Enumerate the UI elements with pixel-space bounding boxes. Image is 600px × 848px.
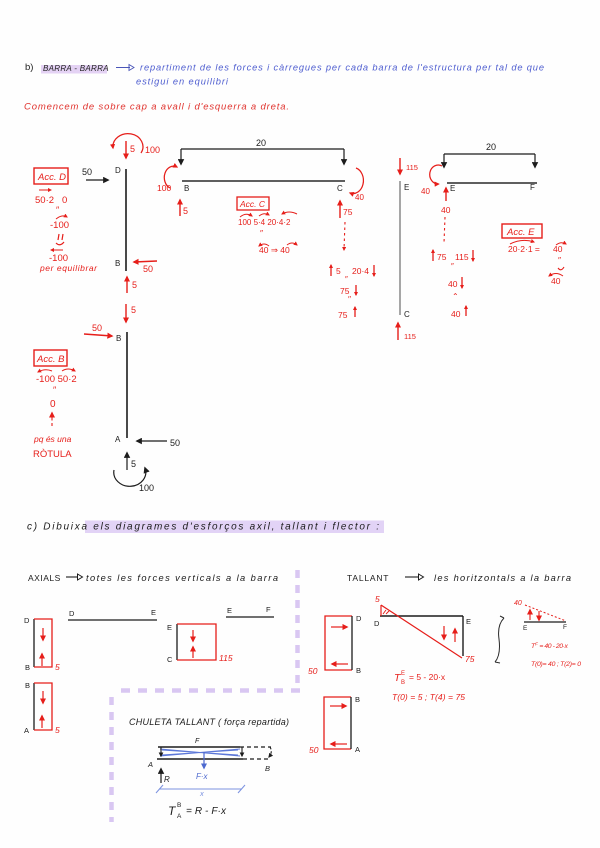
bar B-A bbox=[126, 332, 128, 438]
svg-text:TALLANT: TALLANT bbox=[347, 573, 389, 583]
dim arrow left E bbox=[443, 154, 445, 167]
shear diagram base D-E bbox=[380, 615, 463, 617]
svg-text:AXIALS: AXIALS bbox=[28, 573, 61, 583]
force arrow 5 up below B of BC bbox=[179, 200, 181, 216]
dim line 20 over bar B-C bbox=[181, 148, 344, 150]
highlight BARRA-BARRA bbox=[41, 65, 107, 74]
svg-text:″: ″ bbox=[260, 228, 263, 238]
arc over 5.4 AccC bbox=[259, 214, 269, 216]
svg-text:5: 5 bbox=[183, 206, 188, 216]
axial EC up arrow bbox=[192, 647, 194, 658]
svg-text:5: 5 bbox=[131, 305, 136, 315]
svg-text:50: 50 bbox=[308, 666, 318, 676]
svg-text:⌃: ⌃ bbox=[452, 292, 459, 301]
svg-text:D: D bbox=[374, 619, 380, 628]
svg-text:75: 75 bbox=[338, 310, 348, 320]
svg-text:115: 115 bbox=[455, 252, 469, 262]
svg-text:″: ″ bbox=[558, 255, 561, 265]
force arrow 115 down at E bbox=[399, 158, 401, 174]
dim tick left bbox=[156, 785, 163, 793]
svg-text:estigui en equilibri: estigui en equilibri bbox=[136, 77, 229, 87]
shear up arrow mid bbox=[454, 629, 456, 642]
svg-text:50·2: 50·2 bbox=[35, 195, 54, 206]
svg-text:Acc. D: Acc. D bbox=[37, 172, 66, 183]
mini dotted diagonal bbox=[525, 605, 566, 621]
svg-text:B: B bbox=[355, 695, 360, 704]
dashed transfer line below C bbox=[344, 222, 345, 250]
arc over 50.2 AccB bbox=[62, 369, 75, 371]
force arrow 115 up at C bottom bbox=[397, 323, 399, 340]
svg-text:40: 40 bbox=[451, 309, 461, 319]
svg-text:C: C bbox=[337, 184, 343, 193]
svg-text:″: ″ bbox=[451, 262, 454, 271]
open head axials arrow bbox=[78, 574, 83, 580]
arc over 40 right bbox=[287, 243, 297, 245]
shear hatch near D bbox=[383, 610, 389, 614]
svg-text:5: 5 bbox=[55, 725, 60, 735]
brace tick bottom bbox=[495, 662, 500, 663]
svg-text:C: C bbox=[404, 310, 410, 319]
arc over result 40 bbox=[556, 243, 566, 245]
axial zero line E-F bbox=[226, 616, 274, 618]
svg-text:E: E bbox=[404, 183, 409, 192]
svg-text:C: C bbox=[167, 655, 173, 664]
axial box E-C black edge bbox=[176, 624, 178, 660]
arc over -100 AccB bbox=[38, 370, 52, 372]
svg-text:= 5 - 20·x: = 5 - 20·x bbox=[409, 672, 446, 682]
brace tick top bbox=[500, 616, 504, 618]
svg-text:A: A bbox=[147, 760, 153, 769]
svg-text:F·x: F·x bbox=[196, 772, 209, 781]
axial EC down arrow bbox=[192, 630, 194, 641]
svg-text:F: F bbox=[530, 183, 535, 192]
svg-text:Comencem de sobre cap a avall: Comencem de sobre cap a avall i d'esquer… bbox=[24, 102, 289, 113]
purple divider left vertical bbox=[109, 697, 114, 822]
svg-text:B: B bbox=[184, 184, 189, 193]
axial box E-C red outline bbox=[177, 624, 216, 660]
balance up75 115down at E bbox=[432, 250, 434, 261]
svg-text:40 ⇒ 40: 40 ⇒ 40 bbox=[259, 245, 290, 255]
load end arrow left bbox=[160, 747, 162, 756]
axial box B-A black edge bbox=[33, 683, 35, 730]
svg-text:20: 20 bbox=[486, 142, 496, 152]
svg-text:40: 40 bbox=[441, 205, 451, 215]
balance line up5 20.4 down at C bbox=[330, 265, 332, 276]
arc over 20.4.2 AccC bbox=[282, 212, 297, 214]
brace divider bbox=[495, 618, 504, 662]
resultant blue arrow F.x bbox=[203, 752, 205, 768]
dim tick right bbox=[238, 785, 245, 793]
svg-text:B: B bbox=[265, 764, 270, 773]
shear box B-A red outline bbox=[324, 697, 351, 749]
svg-text:5: 5 bbox=[132, 280, 137, 290]
svg-text:D: D bbox=[115, 166, 121, 175]
svg-text:E: E bbox=[167, 623, 172, 632]
svg-text:E: E bbox=[450, 184, 455, 193]
svg-text:5: 5 bbox=[336, 266, 341, 276]
arc over 40 left bbox=[259, 244, 269, 246]
box Acc. C bbox=[237, 197, 269, 210]
svg-text:les horitzontals a la barra: les horitzontals a la barra bbox=[434, 573, 571, 583]
axial box D-B black edge bbox=[33, 619, 35, 667]
svg-text:A: A bbox=[24, 726, 29, 735]
dashed end arrow far right bbox=[269, 747, 271, 757]
svg-text:B: B bbox=[25, 663, 30, 672]
svg-text:repartiment de les forces i cà: repartiment de les forces i càrregues pe… bbox=[140, 63, 544, 73]
svg-text:B: B bbox=[115, 259, 120, 268]
svg-text:A: A bbox=[177, 813, 182, 820]
svg-text:B: B bbox=[356, 666, 361, 675]
svg-text:5: 5 bbox=[375, 594, 380, 604]
svg-text:Acc. E: Acc. E bbox=[506, 227, 535, 238]
svg-text:115: 115 bbox=[404, 332, 416, 341]
arrow after title bbox=[116, 67, 130, 69]
purple divider horizontal bbox=[113, 688, 300, 693]
force arrow 50 into B (red, from right) bbox=[134, 261, 157, 262]
svg-text:5: 5 bbox=[131, 459, 136, 469]
dim line x blue bbox=[159, 788, 242, 790]
axial DB down arrow bbox=[42, 628, 44, 640]
svg-text:75: 75 bbox=[343, 207, 353, 217]
svg-text:50: 50 bbox=[143, 264, 153, 274]
axial BA down arrow bbox=[42, 691, 44, 703]
bar D-B bbox=[125, 169, 127, 271]
svg-text:-100: -100 bbox=[50, 220, 69, 231]
arc over -100 bbox=[56, 216, 67, 219]
svg-text:x: x bbox=[199, 789, 204, 798]
bar B-C bbox=[182, 180, 345, 182]
svg-text:0: 0 bbox=[50, 399, 56, 410]
force arrow 5 up below B bbox=[126, 277, 128, 293]
svg-text:Acc. B: Acc. B bbox=[36, 354, 65, 365]
dim arrow right F bbox=[534, 154, 536, 167]
svg-text:E: E bbox=[523, 625, 528, 632]
mini down arrow bbox=[538, 611, 540, 620]
force arrow 50 into D (black) bbox=[86, 179, 108, 181]
arc over 100 AccC bbox=[240, 214, 252, 217]
svg-text:D: D bbox=[24, 616, 30, 625]
svg-text:20·4: 20·4 bbox=[352, 266, 369, 276]
shear box D-B black edge bbox=[351, 616, 353, 670]
dashed arrow up to zero bbox=[51, 413, 53, 426]
axial box D-B red outline bbox=[34, 619, 52, 667]
open head tallant arrow bbox=[419, 574, 424, 580]
svg-text:BARRA - BARRA: BARRA - BARRA bbox=[43, 64, 109, 73]
svg-text:0: 0 bbox=[62, 195, 67, 206]
force arrow 75 up below C bbox=[339, 201, 341, 218]
svg-text:75: 75 bbox=[465, 654, 475, 664]
svg-text:100 5·4 20·4·2: 100 5·4 20·4·2 bbox=[238, 218, 291, 227]
svg-text:E: E bbox=[401, 671, 405, 677]
mini up arrow bbox=[529, 610, 531, 620]
svg-text:D: D bbox=[69, 609, 75, 618]
force arrow 50 into A (black) bbox=[137, 440, 167, 442]
svg-text:115: 115 bbox=[406, 163, 418, 172]
box Acc. B bbox=[34, 350, 67, 366]
axial DB up arrow bbox=[41, 654, 43, 666]
dim arrow left B bbox=[180, 149, 182, 164]
svg-text:totes les forces verticals a l: totes les forces verticals a la barra bbox=[86, 573, 278, 583]
axial BA up arrow bbox=[41, 716, 43, 728]
force arrow 5 up below A bbox=[126, 453, 128, 470]
shear BA left arrow bbox=[331, 743, 347, 745]
bar E-C vertical gray bbox=[399, 181, 401, 315]
svg-text:A: A bbox=[355, 745, 360, 754]
bar E-F bbox=[447, 182, 537, 184]
dim arrow right C bbox=[343, 149, 345, 164]
svg-text:′′: ′′ bbox=[348, 295, 352, 304]
mini diagram base E-F bbox=[524, 621, 566, 623]
svg-text:40: 40 bbox=[355, 193, 364, 202]
shear DB right arrow bbox=[331, 626, 347, 628]
shear box B-A black edge bbox=[350, 697, 352, 749]
moment arc 40 at E of EF bbox=[430, 165, 442, 184]
shear small left edge red bbox=[380, 605, 382, 616]
svg-text:100: 100 bbox=[139, 483, 154, 493]
svg-text:E: E bbox=[151, 608, 156, 617]
svg-text:B: B bbox=[177, 802, 181, 809]
svg-text:RÒTULA: RÒTULA bbox=[33, 449, 72, 460]
arrow after TALLANT bbox=[405, 576, 419, 578]
load hatch blue bbox=[160, 749, 240, 756]
double down arrow bbox=[56, 234, 64, 245]
svg-text:F: F bbox=[266, 605, 271, 614]
svg-text:20: 20 bbox=[256, 138, 266, 148]
force arrow 5 down above lower B bbox=[125, 304, 127, 322]
shear diagonal line bbox=[381, 605, 462, 658]
small arrow over 50.2 bbox=[39, 189, 51, 191]
shear box D-B red outline bbox=[325, 616, 352, 670]
arrow after AXIALS bbox=[66, 576, 78, 578]
purple divider right vertical bbox=[295, 570, 300, 684]
svg-text:40: 40 bbox=[553, 244, 563, 254]
moment arc 100 at B of BC bbox=[164, 166, 177, 188]
svg-text:B: B bbox=[25, 681, 30, 690]
dim line 20 over bar E-F bbox=[444, 153, 535, 155]
axial zero line D-E bbox=[68, 619, 157, 621]
svg-text:B: B bbox=[116, 334, 121, 343]
svg-text:5: 5 bbox=[55, 662, 60, 672]
axial box B-A red outline bbox=[34, 683, 52, 730]
force arrow 50 into lower B bbox=[84, 334, 112, 336]
svg-text:= R - F·x: = R - F·x bbox=[186, 806, 227, 817]
svg-text:b): b) bbox=[25, 62, 33, 73]
svg-text:E: E bbox=[466, 617, 471, 626]
moment arc 40 at C of BC bbox=[350, 168, 363, 194]
shear DB left arrow bbox=[332, 663, 348, 665]
beam bottom dashed extension bbox=[243, 758, 268, 760]
svg-text:40: 40 bbox=[514, 600, 522, 607]
box Acc. D bbox=[34, 168, 68, 184]
force arrow 40 up below E bbox=[445, 188, 447, 201]
svg-text:75: 75 bbox=[437, 252, 447, 262]
svg-text:T(0) = 5 ; T(4) = 75: T(0) = 5 ; T(4) = 75 bbox=[392, 692, 465, 702]
arc over final 40 bbox=[549, 274, 563, 277]
svg-text:115: 115 bbox=[219, 653, 233, 663]
left arrow over -100 bbox=[51, 249, 63, 251]
svg-text:T(0)= 40 ; T(2)= 0: T(0)= 40 ; T(2)= 0 bbox=[531, 661, 581, 668]
svg-text:50: 50 bbox=[170, 438, 180, 448]
svg-text:CHULETA TALLANT ( força repar: CHULETA TALLANT ( força repartida) bbox=[129, 717, 289, 727]
svg-text:pq és una: pq és una bbox=[33, 434, 72, 444]
svg-text:B: B bbox=[401, 680, 405, 686]
svg-text:50: 50 bbox=[82, 167, 92, 177]
svg-text:20·2·1 =: 20·2·1 = bbox=[508, 244, 540, 254]
dashed transfer line below E bbox=[444, 217, 445, 243]
svg-text:5: 5 bbox=[130, 144, 135, 154]
svg-text:per equilibrar: per equilibrar bbox=[39, 263, 98, 273]
arc over 20.2.1 bbox=[510, 240, 534, 244]
beam top dashed extension bbox=[240, 746, 271, 748]
svg-text:100: 100 bbox=[145, 145, 160, 155]
box Acc. E bbox=[502, 224, 542, 238]
svg-text:F: F bbox=[563, 624, 567, 631]
svg-text:40: 40 bbox=[448, 279, 458, 289]
arrow open head bbox=[129, 65, 134, 71]
moment arc 100 at A bbox=[114, 468, 146, 486]
svg-text:″: ″ bbox=[345, 275, 348, 284]
svg-text:40: 40 bbox=[551, 276, 561, 286]
svg-text:R: R bbox=[164, 775, 170, 784]
svg-text:E: E bbox=[227, 606, 232, 615]
force arrow 5 down at D bbox=[125, 141, 127, 158]
beam top line bbox=[158, 746, 240, 748]
load end arrow right bbox=[241, 747, 243, 756]
shear down arrow mid bbox=[443, 626, 445, 639]
svg-text:50: 50 bbox=[92, 323, 102, 333]
svg-text:-100 50·2: -100 50·2 bbox=[36, 374, 77, 385]
svg-text:A: A bbox=[115, 435, 121, 444]
svg-text:100: 100 bbox=[157, 183, 171, 193]
highlight c line bbox=[85, 521, 384, 534]
beam bottom line bbox=[157, 758, 243, 760]
svg-text:D: D bbox=[356, 614, 362, 623]
svg-text:F: F bbox=[195, 738, 200, 745]
moment arc 100 at D bbox=[113, 134, 143, 153]
reaction arrow R bbox=[160, 769, 162, 783]
shear BA right arrow bbox=[330, 705, 346, 707]
svg-text:Acc. C: Acc. C bbox=[239, 199, 266, 209]
svg-text:50: 50 bbox=[309, 745, 319, 755]
small v arrow bbox=[558, 267, 564, 270]
shear diagram right edge bbox=[462, 616, 464, 656]
svg-text:40: 40 bbox=[421, 187, 430, 196]
